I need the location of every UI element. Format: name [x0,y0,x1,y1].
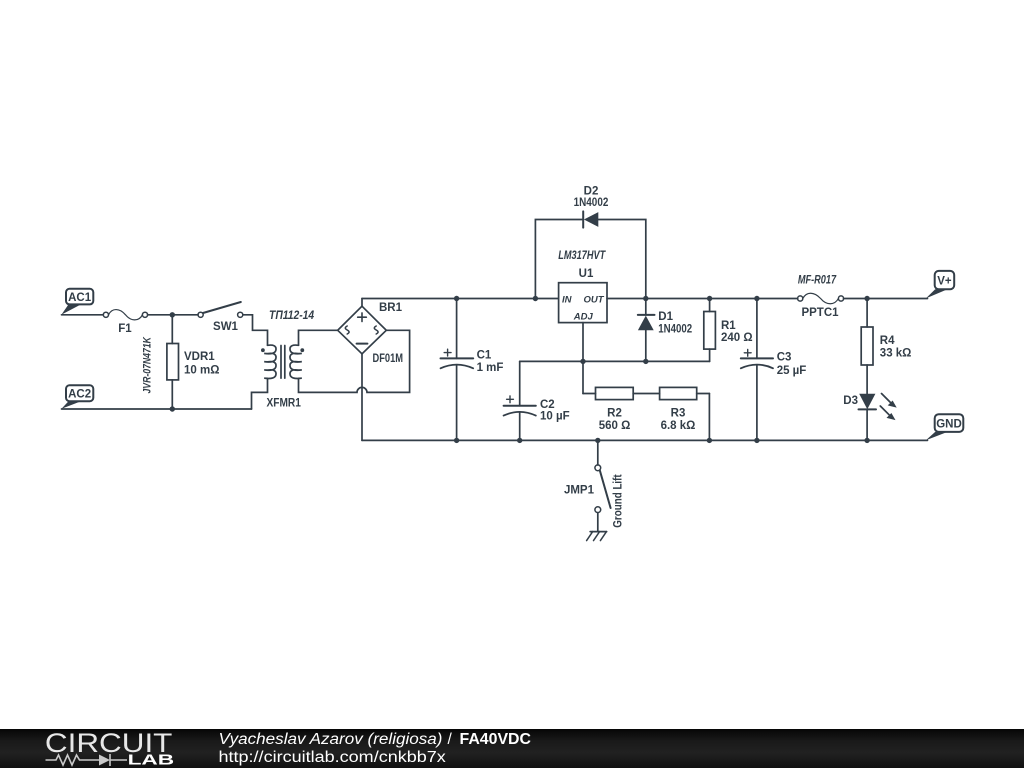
bridge rectifier BR1 [338,302,403,365]
svg-text:1 mF: 1 mF [477,362,504,374]
logo resistor-diode glyph [46,754,128,766]
svg-text:560 Ω: 560 Ω [599,420,631,432]
svg-text:R1: R1 [721,320,736,332]
svg-text:33 kΩ: 33 kΩ [880,347,912,359]
svg-text:DF01M: DF01M [373,353,404,365]
svg-text:1N4002: 1N4002 [574,197,609,209]
svg-text:LM317HVT: LM317HVT [558,250,606,262]
svg-text:Ground Lift: Ground Lift [612,474,624,528]
jumper JMP1 [564,440,624,530]
wire SW1 to XFMR1 primary top [243,315,268,346]
node junction R1 top [707,296,712,301]
node junction D3 bottom [864,438,869,443]
svg-text:OUT: OUT [583,294,604,305]
svg-text:BR1: BR1 [379,302,403,314]
wire OUT rail [607,298,798,300]
terminal flag GND [926,414,963,440]
svg-text:C1: C1 [477,350,492,362]
node junction ADJ [580,359,585,364]
svg-text:GND: GND [936,419,962,431]
wire U1 ADJ down [582,323,584,362]
svg-text:IN: IN [562,294,573,305]
terminal flag AC2 [62,385,94,409]
wire AC2 rail [62,408,252,410]
svg-text:240 Ω: 240 Ω [721,332,753,344]
node junction R4 top [864,296,869,301]
svg-text:VDR1: VDR1 [184,351,215,363]
wire PPTC1 to V+ [844,298,928,300]
node junction VDR1 bottom [170,406,175,411]
svg-text:JVR-07N471K: JVR-07N471K [142,336,154,393]
node junction at VDR1 top [170,312,175,317]
footer bar [0,729,1024,768]
wire ADJ node horizontal [520,360,710,362]
node junction D1 top [643,296,648,301]
wire XFMR1 secondary bottom to BR1 right (with hop) [299,330,410,392]
node junction C2 bottom [517,438,522,443]
wire XFMR1 secondary top to BR1 [299,330,338,345]
node junction D1 bottom [643,359,648,364]
svg-text:Vyacheslav Azarov (religiosa): Vyacheslav Azarov (religiosa) [219,731,443,748]
diode D1 [638,299,692,362]
svg-text:10 mΩ: 10 mΩ [184,365,219,377]
svg-text:U1: U1 [579,268,594,280]
svg-text:/: / [448,731,453,748]
svg-text:R4: R4 [880,335,895,347]
resistor R1 [704,299,753,362]
node junction C3 top [754,296,759,301]
node junction D2 left [533,296,538,301]
switch SW1 [198,302,243,333]
ground symbol [587,532,607,541]
svg-text:XFMR1: XFMR1 [267,398,302,410]
LED D3 [843,394,896,441]
svg-text:25 µF: 25 µF [777,365,807,377]
transformer XFMR1 [261,310,315,410]
svg-text:SW1: SW1 [213,321,239,333]
varistor VDR1 [142,315,220,409]
svg-text:D3: D3 [843,395,858,407]
wire XFMR1 primary bottom to AC2 rail [252,378,268,409]
wire ground rail [362,439,928,441]
svg-text:FA40VDC: FA40VDC [460,731,532,748]
wire BR1 bottom to ground rail [361,354,363,441]
wire AC1 to F1 [62,314,104,316]
node junction C3 bottom [754,438,759,443]
svg-text:ADJ: ADJ [573,312,594,323]
svg-text:C2: C2 [540,399,555,411]
node junction C1 top [454,296,459,301]
fuse F1 [103,310,147,335]
node junction C1 bottom [454,438,459,443]
wire BR1 top to main rail [361,299,363,307]
terminal flag AC1 [62,289,94,315]
svg-text:1N4002: 1N4002 [658,323,692,335]
resistor R3 [660,387,710,440]
resistor R2 [583,361,660,432]
svg-text:R2: R2 [607,407,622,419]
svg-text:MF-R017: MF-R017 [798,275,837,287]
capacitor C3 [741,299,807,441]
svg-text:6.8 kΩ: 6.8 kΩ [661,420,696,432]
svg-text:AC1: AC1 [68,292,92,304]
svg-text:JMP1: JMP1 [564,485,595,497]
svg-text:R3: R3 [671,407,686,419]
fuse PPTC1 [798,275,844,319]
node junction R3 bottom [707,438,712,443]
wire F1 to SW1 [148,314,198,316]
diode D2 loop wires [535,220,582,299]
svg-text:D1: D1 [658,311,673,323]
diode D2 [574,186,609,228]
op U1 LM317HVT [558,250,607,323]
terminal flag V+ [926,271,954,299]
svg-text:http://circuitlab.com/cnkbb7x: http://circuitlab.com/cnkbb7x [219,749,447,766]
capacitor C1 [441,299,504,441]
svg-text:F1: F1 [118,323,132,335]
svg-text:AC2: AC2 [68,389,91,401]
wire main rail BR1 to U1 [362,298,559,300]
resistor R4 [861,299,911,394]
svg-text:V+: V+ [937,276,952,288]
svg-text:PPTC1: PPTC1 [801,307,839,319]
capacitor C2 [504,361,570,440]
node junction JMP1 top [595,438,600,443]
svg-text:C3: C3 [777,351,792,363]
svg-text:LAB: LAB [128,753,175,768]
svg-text:ТП112-14: ТП112-14 [269,310,315,322]
svg-text:D2: D2 [584,186,599,198]
svg-text:10 µF: 10 µF [540,411,570,423]
